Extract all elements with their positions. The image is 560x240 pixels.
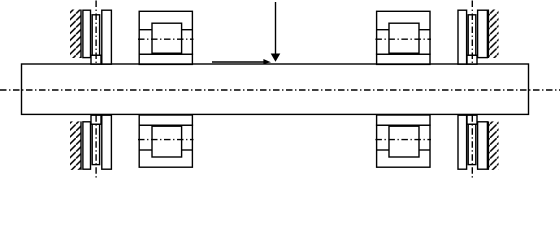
- right support top: collar block: [467, 55, 477, 64]
- left support top: outer ring plate: [83, 10, 91, 57]
- load arrow vertical: stem: [275, 2, 277, 55]
- bearing bottom-left: base flange: [139, 115, 192, 125]
- bearing bottom-right: left race split line: [377, 149, 389, 151]
- bearing top-left: inner race: [152, 23, 182, 53]
- right support bottom: collar block: [467, 115, 477, 124]
- left support bottom: vertical centerline: [95, 115, 97, 177]
- bearing bottom-left: outer housing: [139, 125, 192, 167]
- left support bottom: outer ring plate: [83, 122, 91, 169]
- right support bottom: wall inner edge: [487, 121, 489, 169]
- bearing top-left: rolling element centerline: [138, 38, 194, 40]
- right support bottom: spacer sleeve: [468, 124, 476, 164]
- left support top: wall inner edge: [80, 10, 82, 59]
- shaft body: [22, 64, 529, 114]
- right support bottom: vertical centerline: [471, 115, 473, 177]
- left support top: inner ring plate: [102, 10, 112, 64]
- left support top: wall hatching: [70, 10, 81, 59]
- load arrow vertical: head: [271, 54, 281, 62]
- bearing top-right: rolling element centerline: [375, 38, 431, 40]
- right support bottom: inner ring plate: [458, 115, 467, 169]
- bearing top-left: right race split line: [182, 29, 193, 31]
- right support top: wall inner edge: [487, 10, 489, 59]
- bearing top-right: outer housing: [377, 11, 430, 54]
- bearing bottom-left: right race split line: [182, 149, 193, 151]
- left support bottom: wall hatching: [70, 121, 81, 169]
- main shaft centerline: [0, 89, 560, 91]
- bearing bottom-left: inner race: [152, 126, 182, 157]
- left support bottom: spacer sleeve: [92, 124, 99, 164]
- leader arrow horizontal: head: [263, 59, 271, 64]
- left support bottom: collar block: [91, 115, 101, 124]
- left support top: vertical centerline: [95, 1, 97, 65]
- right support top: wall hatching: [488, 10, 498, 59]
- bearing top-right: inner race: [389, 23, 419, 53]
- bearing bottom-right: rolling element centerline: [375, 139, 431, 141]
- right support top: inner ring plate: [458, 10, 467, 64]
- right support bottom: wall hatching: [488, 121, 498, 169]
- bearing bottom-left: left race split line: [139, 149, 152, 151]
- right support top: spacer sleeve: [468, 15, 476, 55]
- left support bottom: wall inner edge: [80, 121, 82, 169]
- bearing bottom-right: right race split line: [419, 149, 430, 151]
- leader arrow horizontal: stem: [212, 61, 265, 63]
- bearing top-right: base flange: [377, 54, 430, 64]
- right support top: outer ring plate: [478, 10, 488, 57]
- bearing bottom-right: inner race: [389, 126, 419, 157]
- bearing top-left: left race split line: [139, 29, 152, 31]
- bearing top-right: right race split line: [419, 29, 430, 31]
- left support top: spacer sleeve: [92, 15, 99, 55]
- right support bottom: outer ring plate: [478, 122, 488, 169]
- bearing bottom-right: base flange: [377, 115, 430, 125]
- bearing top-left: outer housing: [139, 11, 192, 54]
- left support top: collar block: [91, 55, 101, 64]
- left support bottom: inner ring plate: [102, 115, 112, 169]
- bearing top-left: base flange: [139, 54, 192, 64]
- bearing bottom-left: rolling element centerline: [138, 139, 194, 141]
- bearing bottom-right: outer housing: [377, 125, 430, 167]
- right support top: vertical centerline: [471, 1, 473, 65]
- bearing top-right: left race split line: [377, 29, 389, 31]
